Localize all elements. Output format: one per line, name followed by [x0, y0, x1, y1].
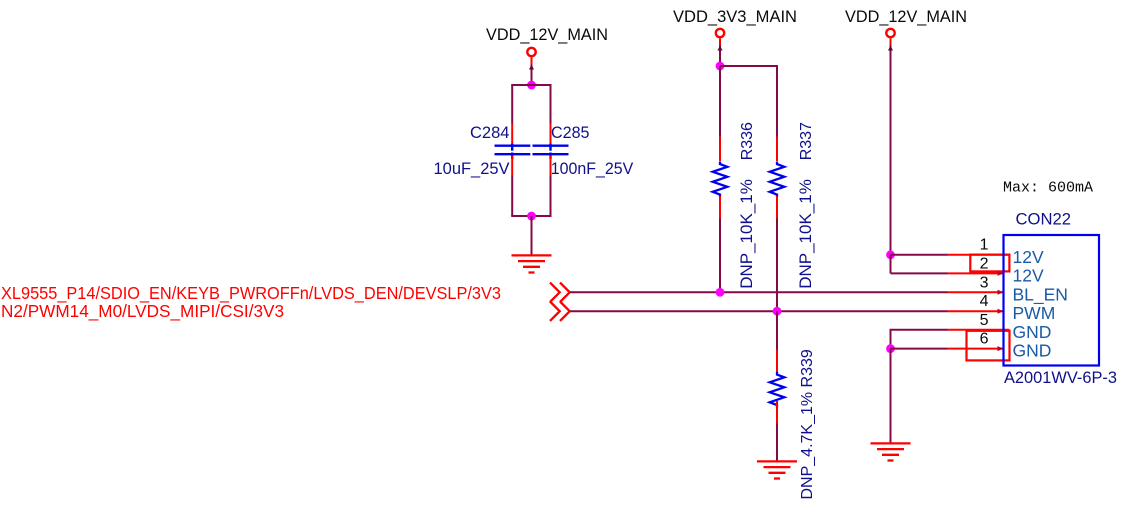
wire C284 bottom lead: [511, 176, 513, 217]
svg-text:R337: R337: [798, 122, 815, 160]
svg-text:DNP_10K_1%: DNP_10K_1%: [796, 179, 815, 289]
wire junction to pin2 level: [890, 255, 892, 274]
svg-text:3: 3: [980, 274, 989, 291]
wire power stem to cap top rail: [531, 65, 533, 86]
pin 2 lead: [948, 272, 1004, 274]
wire R339 bottom to ground: [776, 424, 778, 462]
svg-text:GND: GND: [1013, 322, 1052, 342]
svg-text:VDD_3V3_MAIN: VDD_3V3_MAIN: [673, 7, 797, 26]
pin 6 lead: [948, 348, 1004, 350]
power symbol VDD_12V_MAIN (right): [845, 7, 967, 46]
off-page connector chevron PWM: [550, 302, 570, 321]
resistor R336: [713, 122, 756, 289]
power symbol VDD_3V3_MAIN: [673, 7, 797, 46]
off-page connector chevron BL_EN: [550, 283, 570, 302]
wire arrow tick right 12V: [888, 46, 893, 51]
wire GND pins corner: [891, 330, 948, 349]
ground (under connector GND): [871, 443, 911, 460]
connector U CON22 box: [1004, 235, 1100, 366]
wire cap bottom rail: [511, 215, 551, 217]
wire arrow tick left power: [529, 65, 534, 70]
resistor R337: [770, 122, 815, 289]
svg-text:Max: 600mA: Max: 600mA: [1003, 180, 1093, 197]
pin 4 lead: [948, 310, 1004, 312]
svg-text:2: 2: [980, 256, 989, 273]
svg-text:100nF_25V: 100nF_25V: [551, 160, 634, 178]
wire R336 top lead: [719, 66, 721, 137]
wire C285 bottom lead: [550, 176, 552, 217]
svg-text:A2001WV-6P-3: A2001WV-6P-3: [1004, 369, 1117, 387]
wire R339 top lead: [776, 311, 778, 349]
node junction cap top: [527, 81, 536, 90]
short loop pins 1-2: [970, 255, 1009, 272]
wire to pin2: [891, 272, 948, 274]
wire to ground 1: [531, 216, 533, 255]
svg-text:CON22: CON22: [1016, 210, 1072, 229]
node junction GND: [886, 344, 895, 353]
power symbol VDD_12V_MAIN (left): [486, 25, 608, 65]
node junction R336/BL_EN: [716, 288, 725, 297]
wire C285 top lead: [550, 85, 552, 124]
svg-text:10uF_25V: 10uF_25V: [434, 160, 510, 178]
pin 6 wire arrowhead: [998, 346, 1004, 351]
svg-text:BL_EN: BL_EN: [1013, 284, 1068, 305]
wire PWM net: [570, 310, 948, 312]
wire pin6: [891, 348, 948, 350]
svg-text:VDD_12V_MAIN: VDD_12V_MAIN: [845, 7, 967, 26]
wire 3V3 stem: [719, 46, 721, 67]
svg-text:1: 1: [980, 237, 989, 254]
wire to ground 3: [890, 349, 892, 443]
wire cap top rail: [511, 84, 551, 86]
wire R337 bottom to PWM net: [776, 219, 778, 312]
wire to pin1: [891, 254, 948, 256]
svg-text:DNP_4.7K_1% R339: DNP_4.7K_1% R339: [799, 349, 816, 499]
ground (under R339): [757, 461, 797, 478]
wire 3V3 to R337 branch: [720, 66, 777, 137]
svg-text:C285: C285: [551, 124, 590, 142]
svg-text:5: 5: [980, 312, 989, 329]
resistor R339: [770, 349, 816, 499]
node junction R337-R339/PWM: [773, 307, 782, 316]
svg-text:C284: C284: [470, 124, 510, 142]
ground (under C284/C285): [512, 255, 552, 272]
pin 3 lead: [948, 291, 1004, 293]
capacitor C284: [434, 124, 531, 179]
svg-text:6: 6: [980, 331, 989, 348]
pin 1 lead: [948, 254, 1010, 256]
svg-text:12V: 12V: [1013, 265, 1044, 285]
svg-text:PWM: PWM: [1013, 303, 1056, 323]
wire 12V down to pin1 level: [890, 46, 892, 255]
wire C284 top lead: [511, 85, 513, 124]
pin 2 wire arrowhead: [998, 271, 1004, 276]
svg-text:4: 4: [980, 293, 989, 310]
short loop pins 5-6: [967, 331, 1010, 361]
wire arrow tick 3V3: [718, 46, 723, 51]
svg-text:12V: 12V: [1013, 247, 1044, 267]
svg-text:R336: R336: [739, 122, 756, 160]
svg-text:N2/PWM14_M0/LVDS_MIPI/CSI/3V3: N2/PWM14_M0/LVDS_MIPI/CSI/3V3: [1, 301, 284, 321]
node junction 3V3: [716, 62, 725, 71]
wire R336 bottom to BL_EN net: [719, 219, 721, 293]
svg-text:DNP_10K_1%: DNP_10K_1%: [737, 179, 756, 289]
pin 4 wire arrowhead: [998, 309, 1004, 314]
pin 5 lead: [948, 329, 1010, 331]
node junction 12V: [886, 250, 895, 259]
wire BL_EN net: [570, 291, 948, 293]
svg-text:GND: GND: [1013, 341, 1052, 361]
pin 3 wire arrowhead: [998, 290, 1004, 295]
capacitor C285: [533, 124, 634, 179]
svg-text:VDD_12V_MAIN: VDD_12V_MAIN: [486, 25, 608, 44]
node junction cap bottom: [527, 212, 536, 221]
